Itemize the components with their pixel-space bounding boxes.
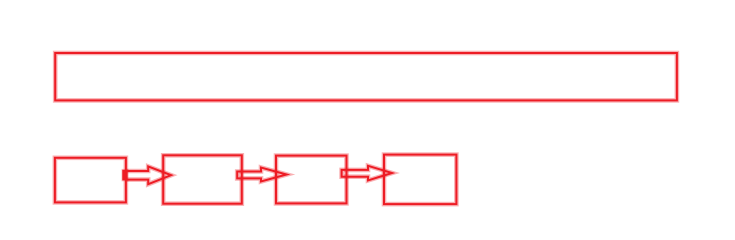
node box 1	[55, 158, 126, 203]
node box 4	[384, 155, 456, 205]
node box 3	[276, 156, 347, 204]
node box 2	[163, 155, 242, 203]
header rectangle	[55, 53, 677, 100]
arrow 1 (box1 to box2)	[127, 167, 171, 185]
arrow 1 tail plug	[122, 169, 129, 181]
arrow 3 (box3 to box4)	[342, 166, 392, 181]
arrow 2 (box2 to box3)	[237, 168, 286, 182]
